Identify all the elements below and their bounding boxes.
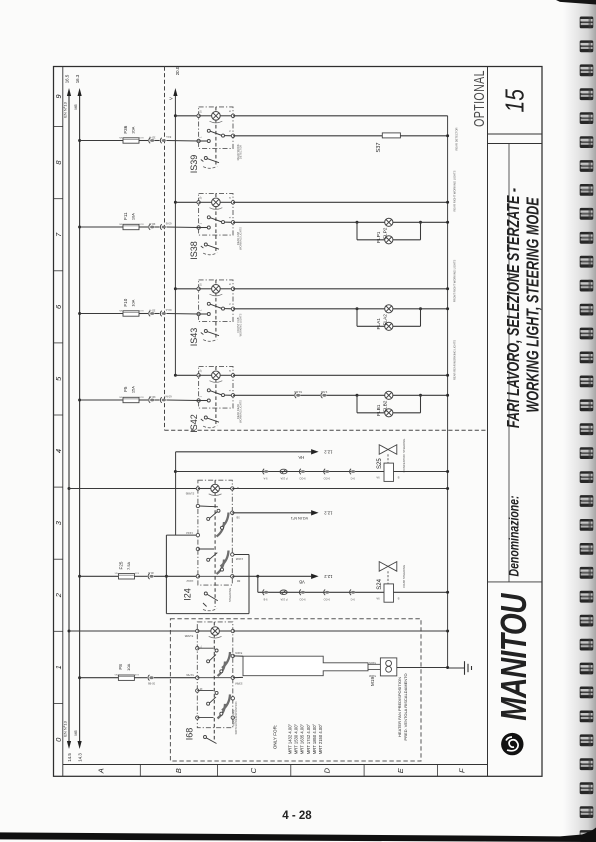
svg-text:Denominazione:: Denominazione: (506, 496, 522, 577)
svg-text:63-B: 63-B (166, 221, 172, 225)
svg-text:9-GO: 9-GO (324, 598, 330, 602)
svg-text:F25: F25 (118, 561, 123, 569)
svg-text:I24: I24 (182, 588, 192, 601)
svg-text:13/GB: 13/GB (235, 557, 243, 561)
svg-text:4: 4 (54, 449, 63, 453)
svg-text:HA: HA (298, 455, 304, 460)
svg-text:WORKING LIGHTS: WORKING LIGHTS (239, 227, 243, 250)
svg-text:REAR REAR WORKING LIGHTS: REAR REAR WORKING LIGHTS (453, 340, 457, 380)
svg-text:M5: M5 (73, 103, 78, 109)
svg-text:63-MA: 63-MA (294, 390, 302, 394)
svg-text:63-M: 63-M (165, 394, 172, 398)
svg-text:51/98B: 51/98B (186, 492, 195, 496)
svg-text:FLB2: FLB2 (383, 400, 389, 412)
svg-text:15A: 15A (130, 386, 135, 393)
svg-text:IS39: IS39 (189, 155, 199, 174)
svg-text:63-A: 63-A (166, 308, 172, 312)
svg-text:CRAB STEERING: CRAB STEERING (402, 565, 406, 588)
svg-text:53RN: 53RN (369, 661, 376, 665)
svg-text:12.2: 12.2 (324, 510, 333, 515)
svg-text:D: D (323, 767, 332, 773)
svg-text:30-B: 30-B (148, 571, 154, 575)
svg-text:3D-B: 3D-B (149, 222, 155, 226)
svg-text:F: F (457, 768, 466, 773)
svg-text:1: 1 (54, 665, 63, 669)
svg-text:30-9B: 30-9B (148, 681, 155, 685)
svg-text:B: B (397, 596, 399, 600)
svg-text:ONLY FOR:: ONLY FOR: (273, 725, 278, 749)
svg-text:DETECTOR: DETECTOR (239, 145, 243, 159)
svg-text:3D-M: 3D-M (148, 395, 155, 399)
svg-text:S25: S25 (377, 458, 383, 469)
svg-text:14.5: 14.5 (67, 753, 72, 762)
svg-text:EN N°13: EN N°13 (63, 101, 68, 117)
svg-text:VB: VB (299, 579, 305, 584)
svg-text:IS38: IS38 (189, 241, 199, 260)
svg-text:15: 15 (500, 88, 530, 112)
svg-text:FARI LAVORO, SELEZIONE STERZAT: FARI LAVORO, SELEZIONE STERZATE - (504, 188, 523, 428)
svg-text:4 - 28: 4 - 28 (282, 810, 312, 822)
svg-text:MANITOU: MANITOU (493, 592, 533, 720)
svg-text:7.5A: 7.5A (126, 561, 131, 570)
svg-text:FLB1: FLB1 (376, 404, 382, 416)
svg-text:51/98B: 51/98B (185, 634, 194, 638)
svg-text:MRT 1635 4.00°: MRT 1635 4.00° (300, 723, 305, 754)
svg-text:9-B: 9-B (263, 598, 267, 602)
svg-text:9-G: 9-G (351, 598, 355, 602)
svg-text:WORKING LIGHTS: WORKING LIGHTS (239, 400, 243, 423)
svg-text:16.3: 16.3 (75, 74, 80, 83)
svg-text:M19: M19 (370, 677, 376, 687)
svg-text:F5: F5 (123, 386, 128, 392)
svg-text:CONCENTRIC STEERING: CONCENTRIC STEERING (402, 439, 406, 473)
svg-text:R: R (237, 486, 239, 490)
svg-text:13/42: 13/42 (186, 531, 193, 535)
svg-text:14.3: 14.3 (77, 753, 82, 762)
svg-text:5B: 5B (236, 515, 239, 519)
svg-text:20A: 20A (130, 126, 135, 133)
svg-text:12.2: 12.2 (324, 574, 333, 579)
svg-text:2: 2 (54, 592, 63, 598)
svg-text:16.5: 16.5 (65, 74, 70, 83)
svg-text:STEERING: STEERING (228, 588, 232, 602)
svg-text:I68: I68 (185, 728, 195, 741)
svg-text:6B: 6B (237, 579, 240, 583)
svg-text:63-L: 63-L (165, 135, 171, 139)
svg-text:13/A2: 13/A2 (186, 579, 194, 583)
svg-text:FLA1: FLA1 (376, 318, 382, 330)
svg-text:VG.IN N°1: VG.IN N°1 (291, 516, 308, 520)
svg-text:PRED. VENTOLA RISCALDAMENTO: PRED. VENTOLA RISCALDAMENTO (403, 673, 408, 740)
svg-text:P 10A: P 10A (280, 477, 287, 481)
svg-text:9-GO: 9-GO (324, 477, 330, 481)
svg-text:S24: S24 (377, 578, 383, 589)
svg-text:MRT 1530 4.00°: MRT 1530 4.00° (294, 723, 299, 754)
svg-text:HEATER FAN PREDISPOSITION: HEATER FAN PREDISPOSITION (397, 677, 402, 737)
svg-text:10A: 10A (126, 663, 131, 670)
svg-text:IS43: IS43 (189, 328, 199, 347)
svg-text:51796: 51796 (186, 673, 194, 677)
svg-text:9-A: 9-A (263, 477, 267, 481)
svg-text:SWITCH PREDISPOSITION: SWITCH PREDISPOSITION (234, 701, 238, 734)
svg-text:MRT 2150 4.00°: MRT 2150 4.00° (318, 723, 323, 754)
svg-text:B: B (174, 768, 183, 773)
svg-text:9-GO: 9-GO (299, 598, 305, 602)
svg-text:9-G: 9-G (351, 477, 355, 481)
svg-text:FLP1: FLP1 (376, 231, 382, 243)
svg-text:20.0: 20.0 (175, 66, 180, 75)
svg-text:M5: M5 (73, 729, 78, 735)
svg-text:REAR RIGHT WORKING LIGHTS: REAR RIGHT WORKING LIGHTS (453, 170, 457, 211)
svg-text:REAR DETECTOR: REAR DETECTOR (455, 127, 459, 150)
svg-text:53RM: 53RM (234, 682, 242, 686)
svg-text:3D-A: 3D-A (149, 308, 155, 312)
svg-text:10A: 10A (130, 299, 135, 306)
svg-text:FLA2: FLA2 (383, 314, 389, 326)
svg-text:A: A (97, 768, 106, 774)
svg-text:F10: F10 (123, 298, 128, 306)
svg-text:WORKING LIGHT, STEERING MODE: WORKING LIGHT, STEERING MODE (524, 197, 543, 413)
svg-text:P 10A: P 10A (280, 598, 287, 602)
svg-text:S37: S37 (376, 143, 382, 153)
svg-text:9-MA: 9-MA (321, 390, 328, 394)
svg-text:9A: 9A (376, 596, 379, 600)
svg-text:10A: 10A (130, 213, 135, 220)
svg-text:WORKING LIGHTS: WORKING LIGHTS (239, 313, 243, 336)
svg-text:FLP2: FLP2 (383, 227, 389, 239)
svg-text:F11: F11 (123, 212, 128, 220)
svg-text:MRT 1742 4.00°: MRT 1742 4.00° (306, 723, 311, 754)
svg-text:FRONT RIGHT WORKING LIGHTS: FRONT RIGHT WORKING LIGHTS (453, 259, 457, 302)
svg-text:12.2: 12.2 (324, 450, 333, 455)
svg-text:F36: F36 (123, 125, 128, 133)
svg-text:C: C (249, 767, 258, 773)
svg-text:3D-H: 3D-H (149, 135, 155, 139)
svg-text:OPTIONAL: OPTIONAL (471, 70, 487, 127)
svg-text:MRT 1850 4.00°: MRT 1850 4.00° (312, 723, 317, 754)
svg-text:IS42: IS42 (189, 414, 199, 433)
svg-text:MRT 1432 4.00°: MRT 1432 4.00° (288, 723, 293, 754)
svg-text:9A: 9A (376, 476, 379, 480)
svg-text:53RN: 53RN (235, 651, 242, 655)
svg-text:EN N°13: EN N°13 (63, 720, 68, 736)
svg-text:9-GO: 9-GO (299, 477, 305, 481)
svg-text:B: B (397, 476, 399, 480)
svg-text:F8: F8 (118, 664, 123, 670)
svg-text:V: V (169, 97, 174, 100)
